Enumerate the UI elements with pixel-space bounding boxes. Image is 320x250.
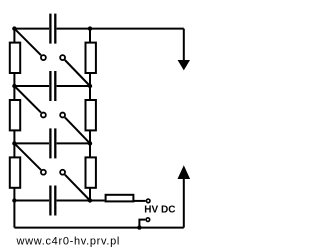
node J1 (12, 26, 16, 30)
capacitor C4 (50, 186, 55, 216)
node J5 (12, 141, 16, 145)
terminal: HV DC positive input (146, 199, 150, 203)
spark gap SG1 left electrode (41, 55, 46, 60)
svg-text:www.c4r0-hv.prv.pl: www.c4r0-hv.prv.pl (16, 236, 121, 248)
wire: diagonal from spark gap SG1 right electrode (65, 60, 90, 86)
capacitor C3 (50, 128, 55, 158)
capacitor C2 (50, 71, 55, 101)
wire: bus 3 right segment (57, 142, 90, 144)
wire: bus 4 left segment (14, 200, 49, 202)
wire: diagonal to spark gap SG2 left electrode (14, 86, 41, 113)
spark gap SG2 left electrode (41, 113, 46, 118)
wire: bottom return bus (14, 227, 183, 229)
wire: bus 4 right segment (57, 200, 105, 202)
resistor R5 (10, 157, 20, 187)
spark gap SG2 right electrode (60, 113, 65, 118)
wire: left rail (13, 29, 15, 228)
resistor R1 (10, 43, 20, 73)
node J8 (88, 198, 92, 202)
resistor R3 (10, 100, 20, 130)
wire: bus 1 right segment (57, 28, 184, 30)
wire: bus 2 right segment (57, 85, 90, 87)
wire: bus 1 left segment (14, 28, 49, 30)
resistor R4 (86, 100, 96, 130)
node J3 (12, 84, 16, 88)
wire: right rail (89, 29, 91, 201)
wire: R7 to HV DC + terminal (133, 200, 145, 202)
terminal: HV DC negative input (146, 218, 150, 222)
node J7 (12, 198, 16, 202)
node J4 (88, 84, 92, 88)
resistor R7 (series charging resistor) (106, 195, 134, 202)
node J9 (bottom bus junction) (137, 225, 141, 229)
wire: diagonal to spark gap SG3 left electrode (14, 143, 41, 170)
spark gap SG3 left electrode (41, 170, 46, 175)
spark gap SG3 right electrode (60, 170, 65, 175)
node J2 (88, 26, 92, 30)
wire: HV DC - terminal stub (139, 220, 145, 228)
wire: bus 2 left segment (14, 85, 49, 87)
wire: diagonal to spark gap SG1 left electrode (14, 29, 41, 56)
svg-text:HV DC: HV DC (144, 205, 175, 216)
resistor R2 (86, 43, 96, 73)
return arrow (pointing up) (178, 165, 191, 227)
output arrow (HV output, pointing down) (178, 29, 190, 71)
wire: diagonal from spark gap SG3 right electrode (65, 175, 90, 201)
resistor R6 (86, 157, 96, 187)
wire: bus 3 left segment (14, 142, 49, 144)
node J6 (88, 141, 92, 145)
wire: diagonal from spark gap SG2 right electrode (65, 117, 90, 143)
capacitor C1 (50, 14, 55, 44)
spark gap SG1 right electrode (60, 55, 65, 60)
